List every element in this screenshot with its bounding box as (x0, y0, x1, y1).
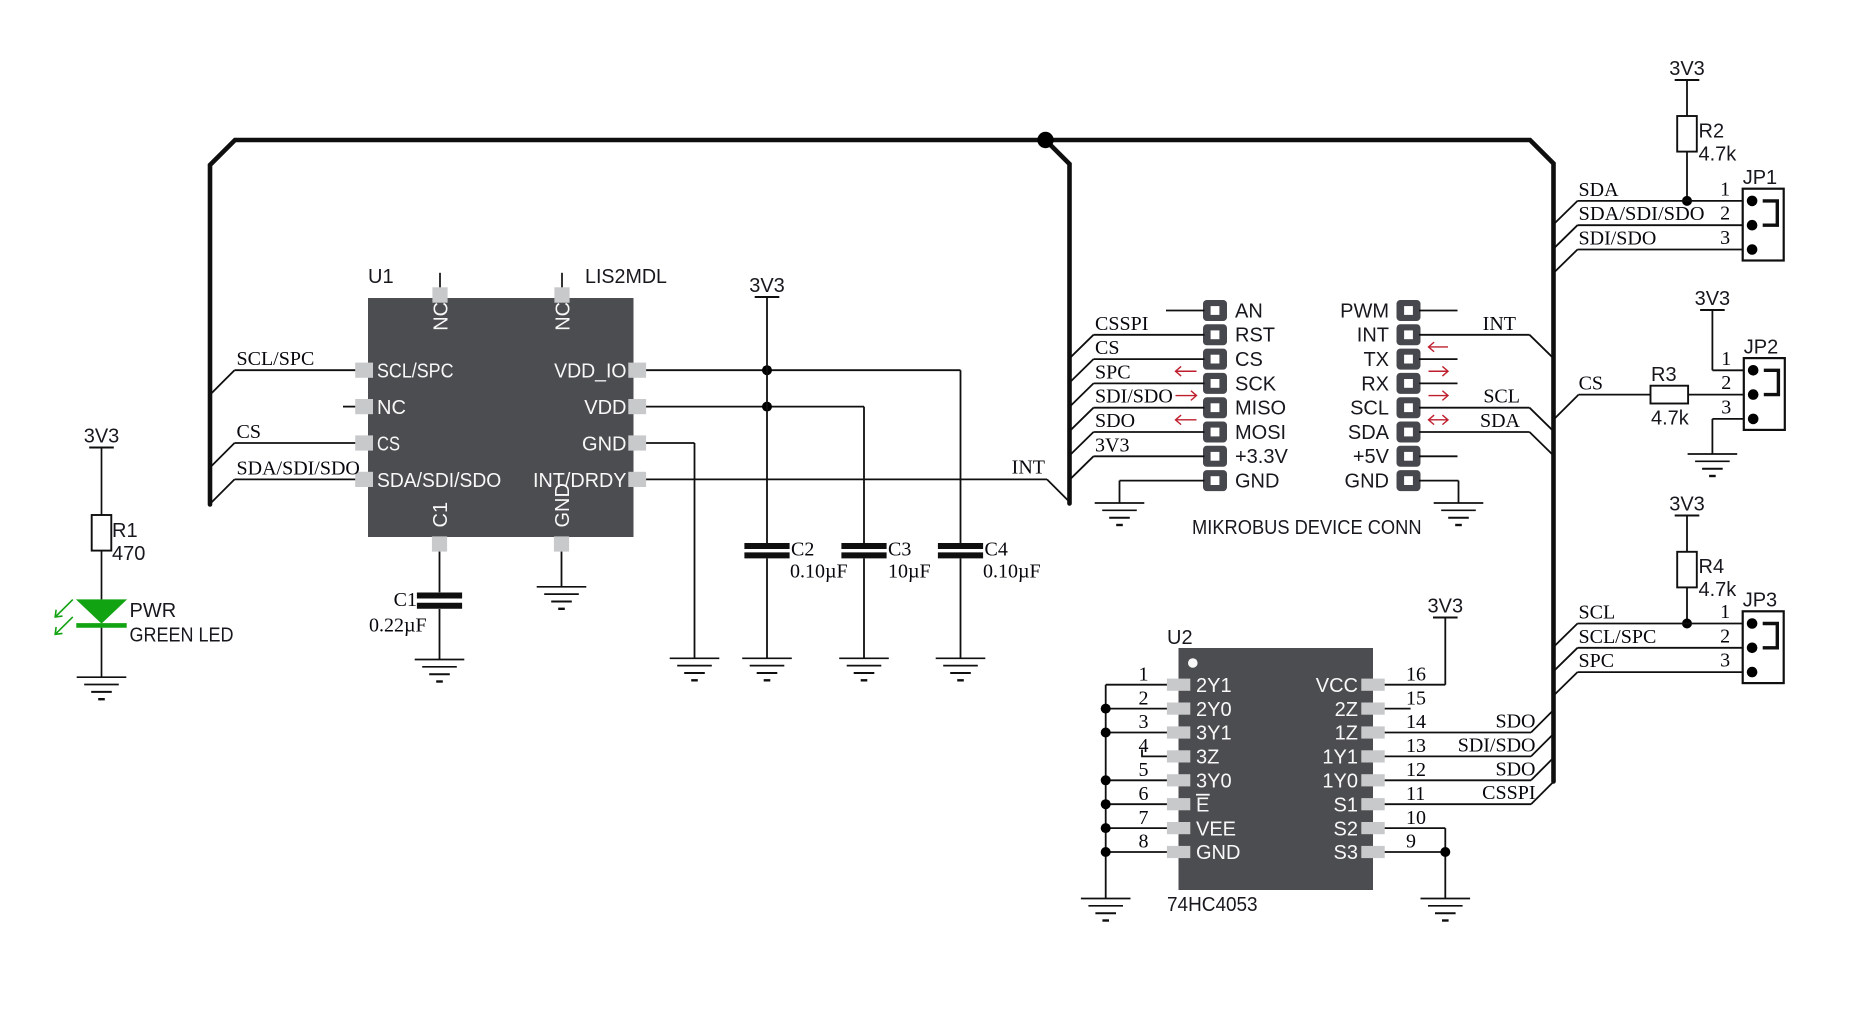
svg-text:VDD: VDD (584, 397, 626, 419)
svg-text:11: 11 (1406, 783, 1425, 805)
svg-text:C2: C2 (791, 539, 814, 561)
svg-text:3V3: 3V3 (1428, 596, 1464, 618)
svg-text:2: 2 (1721, 372, 1731, 394)
svg-text:CS: CS (1095, 337, 1119, 359)
svg-text:4.7k: 4.7k (1699, 144, 1738, 166)
svg-text:INT: INT (1357, 325, 1389, 347)
svg-text:RST: RST (1235, 325, 1275, 347)
svg-text:NC: NC (430, 302, 452, 331)
svg-text:SDA: SDA (1480, 410, 1521, 432)
svg-text:3: 3 (1720, 650, 1730, 672)
svg-text:INT/DRDY: INT/DRDY (533, 470, 627, 492)
svg-text:2Z: 2Z (1335, 699, 1358, 721)
svg-text:3V3: 3V3 (1695, 288, 1731, 310)
svg-text:9: 9 (1406, 831, 1416, 853)
svg-text:SCL/SPC: SCL/SPC (1579, 626, 1657, 648)
svg-text:VEE: VEE (1196, 818, 1236, 840)
svg-text:PWR: PWR (130, 600, 177, 622)
svg-text:C4: C4 (985, 539, 1008, 561)
svg-text:CSSPI: CSSPI (1095, 313, 1148, 335)
svg-text:10µF: 10µF (888, 561, 931, 583)
svg-text:SDA/SDI/SDO: SDA/SDI/SDO (237, 457, 360, 479)
svg-text:1Y1: 1Y1 (1322, 747, 1358, 769)
svg-text:6: 6 (1139, 783, 1149, 805)
svg-text:74HC4053: 74HC4053 (1167, 894, 1258, 916)
svg-text:E: E (1196, 794, 1209, 816)
svg-text:VDD_IO: VDD_IO (554, 361, 626, 383)
svg-text:LIS2MDL: LIS2MDL (585, 266, 667, 288)
svg-text:3: 3 (1720, 227, 1730, 249)
svg-text:3V3: 3V3 (1669, 58, 1705, 80)
svg-text:3V3: 3V3 (1095, 434, 1129, 456)
svg-text:2Y1: 2Y1 (1196, 675, 1232, 697)
svg-text:INT: INT (1483, 313, 1516, 335)
svg-text:SCL/SPC: SCL/SPC (377, 361, 454, 383)
svg-text:1: 1 (1721, 348, 1731, 370)
svg-text:SDI/SDO: SDI/SDO (1579, 228, 1657, 250)
svg-text:S1: S1 (1334, 794, 1358, 816)
svg-text:4.7k: 4.7k (1651, 408, 1690, 430)
svg-text:JP1: JP1 (1743, 167, 1777, 189)
svg-text:+3.3V: +3.3V (1235, 446, 1288, 468)
svg-text:S2: S2 (1334, 818, 1358, 840)
svg-text:SPC: SPC (1579, 650, 1615, 672)
svg-text:CS: CS (237, 421, 261, 443)
svg-text:JP2: JP2 (1744, 336, 1778, 358)
svg-text:R3: R3 (1651, 364, 1677, 386)
svg-text:SDA: SDA (1348, 422, 1390, 444)
svg-text:3: 3 (1139, 711, 1149, 733)
svg-text:PWM: PWM (1340, 300, 1389, 322)
svg-text:14: 14 (1406, 711, 1426, 733)
svg-text:1Y0: 1Y0 (1322, 771, 1358, 793)
svg-text:8: 8 (1139, 831, 1149, 853)
svg-text:U1: U1 (368, 266, 394, 288)
svg-text:7: 7 (1139, 807, 1149, 829)
svg-text:GND: GND (1196, 842, 1240, 864)
svg-text:C1: C1 (394, 589, 417, 611)
svg-text:2Y0: 2Y0 (1196, 699, 1232, 721)
svg-text:MISO: MISO (1235, 398, 1286, 420)
svg-text:1: 1 (1720, 178, 1730, 200)
svg-text:2: 2 (1139, 687, 1149, 709)
svg-text:3: 3 (1721, 396, 1731, 418)
svg-text:SDO: SDO (1095, 410, 1135, 432)
svg-text:0.10µF: 0.10µF (790, 561, 848, 583)
svg-text:SDA/SDI/SDO: SDA/SDI/SDO (377, 470, 501, 492)
svg-text:SDI/SDO: SDI/SDO (1458, 734, 1536, 756)
svg-text:SCL: SCL (1483, 386, 1520, 408)
svg-text:1: 1 (1720, 601, 1730, 623)
svg-text:TX: TX (1363, 349, 1389, 371)
svg-text:NC: NC (377, 397, 406, 419)
svg-text:3Z: 3Z (1196, 747, 1219, 769)
svg-text:VCC: VCC (1316, 675, 1358, 697)
svg-text:JP3: JP3 (1743, 590, 1777, 612)
svg-text:2: 2 (1720, 625, 1730, 647)
svg-text:SCL/SPC: SCL/SPC (237, 348, 315, 370)
svg-text:1: 1 (1139, 663, 1149, 685)
svg-text:SDA/SDI/SDO: SDA/SDI/SDO (1579, 203, 1705, 225)
svg-text:3Y0: 3Y0 (1196, 771, 1232, 793)
svg-text:CS: CS (1235, 349, 1263, 371)
svg-text:12: 12 (1406, 759, 1426, 781)
svg-text:MIKROBUS DEVICE CONN: MIKROBUS DEVICE CONN (1192, 517, 1422, 539)
svg-text:C1: C1 (430, 502, 452, 528)
svg-text:R2: R2 (1699, 121, 1725, 143)
svg-text:AN: AN (1235, 300, 1263, 322)
svg-text:+5V: +5V (1353, 446, 1390, 468)
svg-text:GND: GND (552, 483, 574, 527)
svg-text:16: 16 (1406, 663, 1426, 685)
svg-text:0.10µF: 0.10µF (983, 561, 1041, 583)
svg-text:CS: CS (377, 433, 400, 455)
svg-text:SCL: SCL (1350, 398, 1389, 420)
svg-text:SDO: SDO (1495, 758, 1535, 780)
svg-text:CSSPI: CSSPI (1482, 782, 1535, 804)
svg-text:GND: GND (1345, 471, 1389, 493)
svg-text:3V3: 3V3 (749, 275, 785, 297)
svg-text:SPC: SPC (1095, 361, 1131, 383)
svg-text:NC: NC (552, 302, 574, 331)
svg-text:SCL: SCL (1579, 602, 1616, 624)
svg-text:3Y1: 3Y1 (1196, 723, 1232, 745)
svg-text:2: 2 (1720, 203, 1730, 225)
svg-text:C3: C3 (888, 539, 911, 561)
svg-text:SDA: SDA (1579, 179, 1620, 201)
svg-text:U2: U2 (1167, 627, 1193, 649)
svg-text:R1: R1 (112, 520, 138, 542)
svg-text:R4: R4 (1699, 556, 1725, 578)
svg-text:470: 470 (112, 543, 145, 565)
svg-text:4: 4 (1139, 735, 1149, 757)
svg-text:10: 10 (1406, 807, 1426, 829)
svg-text:0.22µF: 0.22µF (369, 614, 427, 636)
svg-text:CS: CS (1579, 373, 1603, 395)
svg-text:GND: GND (582, 433, 626, 455)
svg-text:SDO: SDO (1495, 711, 1535, 733)
svg-text:15: 15 (1406, 687, 1426, 709)
svg-text:SCK: SCK (1235, 373, 1277, 395)
svg-text:SDI/SDO: SDI/SDO (1095, 386, 1173, 408)
svg-text:3V3: 3V3 (1669, 494, 1705, 516)
svg-text:13: 13 (1406, 735, 1426, 757)
svg-text:4.7k: 4.7k (1699, 579, 1738, 601)
svg-text:INT: INT (1012, 456, 1045, 478)
svg-text:MOSI: MOSI (1235, 422, 1286, 444)
svg-text:RX: RX (1361, 373, 1389, 395)
svg-text:5: 5 (1139, 759, 1149, 781)
svg-text:3V3: 3V3 (84, 426, 120, 448)
svg-text:GND: GND (1235, 471, 1279, 493)
svg-text:S3: S3 (1334, 842, 1358, 864)
svg-text:1Z: 1Z (1335, 723, 1358, 745)
svg-text:GREEN LED: GREEN LED (130, 625, 234, 647)
